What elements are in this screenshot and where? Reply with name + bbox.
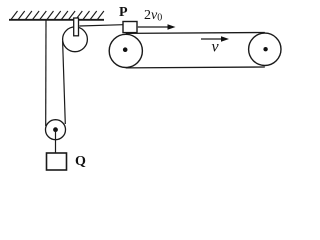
movable pulley axle dot	[53, 127, 58, 132]
svg-text:2v0: 2v0	[144, 8, 162, 24]
left wheel axle dot	[123, 47, 128, 52]
svg-text:v: v	[212, 39, 220, 56]
arrow 2v0	[138, 24, 176, 30]
hanger rod	[55, 130, 57, 153]
left belt wheel	[109, 34, 142, 67]
svg-text:Q: Q	[75, 154, 86, 169]
block P	[123, 22, 137, 33]
ceiling	[9, 19, 104, 21]
right belt wheel	[249, 33, 281, 65]
block Q	[47, 153, 67, 170]
rope fixed pulley to block P	[79, 25, 123, 26]
arrow v	[201, 36, 229, 42]
svg-text:P: P	[119, 5, 128, 20]
belt bottom	[126, 66, 265, 69]
fixed pulley bracket	[74, 18, 79, 36]
right wheel axle dot	[263, 47, 267, 51]
rope ceiling to movable pulley	[45, 20, 47, 126]
belt top	[126, 32, 265, 35]
fixed pulley	[63, 27, 88, 52]
rope fixed pulley to movable pulley	[63, 41, 66, 124]
movable pulley	[46, 120, 66, 140]
ceiling hatching	[11, 11, 104, 20]
